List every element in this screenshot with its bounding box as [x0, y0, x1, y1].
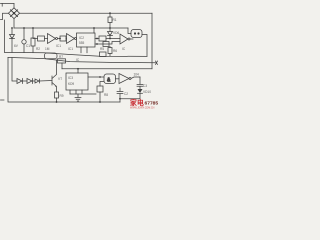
wire down to bridge top: [13, 4, 15, 9]
wire down to diode chain: [12, 58, 17, 81]
wire IC1 top pin: [93, 28, 95, 33]
resistor R4: [99, 36, 106, 41]
resistor R10 from top rail: [109, 13, 111, 17]
transistor VT1: [51, 76, 53, 85]
diode VD8: [27, 79, 33, 84]
node bridge-out: [13, 12, 15, 14]
node rail28-VD6: [109, 27, 111, 29]
zener diode VD5 branch: [11, 28, 13, 35]
relay K1: [45, 53, 58, 59]
node rail28-C1: [23, 27, 25, 29]
value labels: [14, 18, 151, 98]
gate D1: [104, 74, 116, 84]
diode VD9: [35, 79, 40, 83]
diode VD6 branch: [109, 28, 111, 32]
capacitor C1 branch with circle: [23, 28, 25, 40]
node rail28-R1: [32, 27, 34, 29]
svg-text:IC1: IC1: [68, 47, 73, 51]
op-amp IC1a: [48, 34, 56, 44]
svg-text:R1: R1: [113, 18, 117, 22]
node gate-in1: [99, 76, 101, 78]
wire mid top rail y=28: [14, 27, 128, 29]
svg-text:R7: R7: [59, 55, 63, 59]
resistor R1 branch: [32, 28, 34, 38]
junction dots: [11, 12, 121, 103]
node rail28-VD5: [11, 27, 13, 29]
op-amp IC1d: [119, 74, 129, 84]
wire U2 bottom pins: [70, 90, 82, 94]
rail mid3: [62, 68, 152, 70]
node rail102-emitter: [56, 101, 58, 103]
wire IC1 output row2: [95, 42, 120, 45]
svg-text:VD6: VD6: [113, 31, 119, 35]
svg-text:R2: R2: [36, 47, 40, 51]
svg-text:104: 104: [134, 73, 140, 77]
wire left return vertical: [4, 20, 6, 52]
terminal tick: [156, 61, 158, 65]
node toprail-R10: [109, 12, 111, 14]
big left loop: [8, 57, 120, 102]
wire AC input top tick: [1, 3, 15, 5]
speaker B1: [128, 28, 131, 34]
rail mid1: [5, 52, 148, 56]
wire right vertical from top rail: [151, 13, 153, 69]
resistor R6 vertical: [109, 47, 111, 48]
svg-text:IC2: IC2: [79, 36, 84, 40]
node rail28-U1: [93, 27, 95, 29]
node U1-out2: [96, 43, 98, 45]
node sig-R3: [59, 38, 61, 40]
diode VD10: [139, 86, 141, 89]
node rail102-R8: [99, 101, 101, 103]
node C2-VD10: [119, 98, 121, 100]
op-amp IC1c: [120, 34, 128, 44]
wire to gate input1: [88, 76, 104, 78]
wire +V top rail: [20, 12, 152, 14]
resistor R3: [60, 36, 66, 41]
wire bridge output down: [13, 19, 15, 28]
IC U1: [77, 33, 96, 47]
small box on rail: [100, 52, 107, 57]
resistor R2: [33, 38, 38, 40]
capacitor C2: [117, 88, 123, 102]
svg-text:555: 555: [79, 41, 85, 45]
ground: [75, 94, 81, 101]
resistor R5: [103, 42, 109, 47]
bridge rectifier VD1-VD4: [8, 8, 19, 19]
node sig-VD6: [109, 38, 111, 40]
svg-text:WWW.JDWX.CDM.CN: WWW.JDWX.CDM.CN: [130, 106, 155, 109]
svg-text:VT: VT: [58, 77, 62, 81]
svg-text:R8: R8: [104, 93, 108, 97]
svg-text:R9: R9: [60, 94, 64, 98]
logo: [130, 98, 158, 109]
node U1-out1: [96, 38, 98, 40]
rail mid2: [8, 57, 156, 62]
svg-text:R5: R5: [100, 47, 104, 51]
node rail69-U2: [77, 68, 79, 70]
svg-text:VD10: VD10: [143, 90, 151, 94]
wire IC1 bottom pins: [81, 47, 87, 53]
diode VD7: [17, 79, 23, 84]
svg-text:C2: C2: [124, 92, 128, 96]
tick left bottom: [1, 99, 5, 101]
wire AC left lead: [1, 13, 9, 19]
svg-text:IC3: IC3: [68, 76, 73, 80]
svg-text:KD9: KD9: [68, 82, 74, 86]
svg-text:C1: C1: [26, 44, 30, 48]
resistor R7 on rail2: [58, 59, 66, 63]
op-amp IC1b: [67, 34, 75, 44]
svg-text:1M: 1M: [45, 47, 50, 51]
capacitor C3 on diode branch: [137, 77, 143, 86]
svg-text:C3: C3: [143, 84, 147, 88]
svg-text:R6: R6: [113, 49, 117, 53]
resistor R8: [99, 92, 101, 102]
wire IC1 output row1: [95, 38, 99, 40]
svg-text:IC1: IC1: [56, 44, 61, 48]
IC U2: [66, 73, 88, 90]
